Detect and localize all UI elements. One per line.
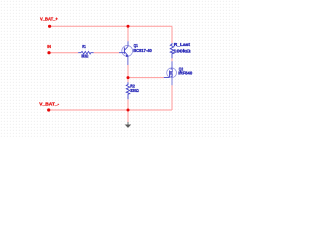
- svg-text:R1: R1: [82, 44, 86, 49]
- svg-text:R_Last: R_Last: [174, 42, 191, 47]
- wire R2 to ground, crossing bottom rail: [127, 99, 129, 122]
- wire bottom rail corner up to Q2 source: [171, 85, 173, 110]
- emitter with arrow: [124, 52, 128, 65]
- junction R2 / bottom rail / ground: [127, 109, 130, 112]
- port IN: [47, 44, 51, 54]
- wire top rail from V_BAT_+ to corner: [49, 25, 172, 27]
- ground: [125, 122, 132, 128]
- channel vertical link and source pin stub: [171, 69, 173, 85]
- wire Q1 emitter down to node: [127, 65, 129, 78]
- wire bottom rail V_BAT_-: [49, 109, 172, 111]
- transistor Q1 BC817-40 (NPN): [119, 41, 152, 65]
- resistor R2 330: [126, 82, 139, 99]
- base pin stub and bar: [119, 47, 124, 53]
- svg-text:3k3Ω: 3k3Ω: [81, 54, 88, 59]
- transistor Q2 IRF840 (N-MOSFET): [164, 61, 193, 85]
- wire R_Last bottom to Q2 drain: [171, 58, 173, 61]
- wire Q1 collector net: [127, 26, 129, 41]
- port V_BAT_+: [40, 17, 58, 28]
- resistor R_Last 100k: [170, 42, 191, 58]
- channel rungs: [171, 68, 173, 70]
- resistor R1 3k3: [78, 44, 93, 59]
- wire R1 to Q1 base: [94, 52, 119, 54]
- wire IN to R1: [49, 52, 78, 54]
- svg-text:100kΩ: 100kΩ: [173, 48, 191, 53]
- wire node to Q2 gate: [128, 77, 164, 79]
- junction at collector / top rail: [127, 25, 130, 28]
- svg-text:BC817-40: BC817-40: [133, 48, 152, 53]
- collector pin stub: [124, 41, 128, 50]
- svg-text:330Ω: 330Ω: [130, 88, 139, 93]
- wire node down to R2: [127, 78, 129, 83]
- svg-text:V_BAT_-: V_BAT_-: [39, 101, 59, 106]
- port V_BAT_-: [39, 101, 59, 111]
- drain pin stub: [171, 61, 173, 69]
- wire top rail corner down to R_Last: [171, 26, 173, 43]
- junction emitter / gate / R2 node: [127, 76, 130, 79]
- svg-text:V_BAT_+: V_BAT_+: [40, 17, 58, 22]
- svg-text:IRF840: IRF840: [178, 71, 192, 76]
- gate pin stub and gate bar: [164, 71, 170, 78]
- svg-text:IN: IN: [47, 44, 51, 49]
